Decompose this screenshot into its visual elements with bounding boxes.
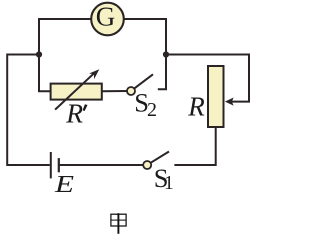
svg-text:E: E (54, 171, 74, 198)
svg-text:R: R (65, 97, 83, 128)
svg-text:1: 1 (164, 173, 174, 194)
svg-text:G: G (96, 2, 116, 32)
svg-text:R: R (187, 91, 205, 121)
svg-text:2: 2 (147, 99, 157, 121)
